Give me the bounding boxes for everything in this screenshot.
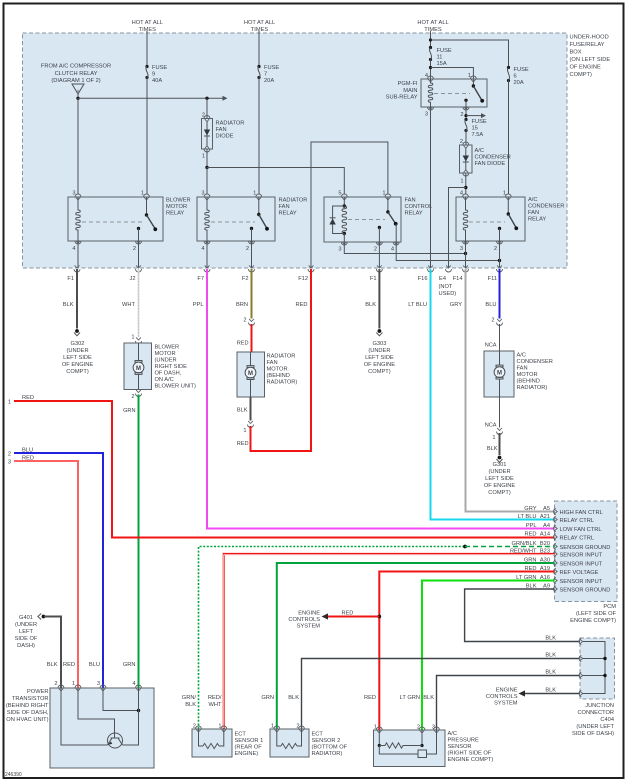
svg-text:1: 1 [131, 335, 134, 341]
svg-text:RED: RED [342, 611, 354, 617]
svg-text:SIDE OF: SIDE OF [15, 636, 38, 642]
svg-text:MOTOR: MOTOR [166, 204, 187, 210]
svg-text:FAN: FAN [267, 360, 278, 366]
svg-text:3: 3 [8, 460, 11, 466]
svg-text:ENGINE COMPT): ENGINE COMPT) [570, 618, 616, 624]
wire fuse 7 to radiator fan relay pin 1 [258, 78, 260, 195]
svg-text:BLK: BLK [47, 662, 58, 668]
label: engine controls system (upper) [288, 611, 320, 630]
pin labels PGM-FI main sub-relay [425, 73, 471, 118]
svg-text:LEFT: LEFT [19, 629, 33, 635]
connector A/C condenser fan motor pin 1 [497, 428, 503, 435]
svg-text:RIGHT SIDE: RIGHT SIDE [155, 364, 188, 370]
svg-text:2: 2 [491, 318, 494, 324]
wire BLK A/C pressure sensor to junction connector row 3 [437, 676, 581, 731]
svg-text:5: 5 [338, 191, 341, 197]
svg-text:(BEHIND RIGHT: (BEHIND RIGHT [6, 703, 49, 709]
svg-text:BLOWER: BLOWER [155, 345, 180, 351]
wire fuse 15 to A/C condenser fan diode [465, 131, 467, 146]
svg-text:HOT AT ALL: HOT AT ALL [132, 20, 163, 26]
fuse 7 20A [257, 65, 279, 84]
wire fan control relay pin 3 net to F14 junction [344, 242, 465, 254]
wire hot feed 3 [430, 31, 432, 48]
svg-text:RED: RED [295, 302, 307, 308]
svg-text:A/C: A/C [448, 731, 457, 737]
wire color labels row [63, 302, 497, 308]
fuse 6 20A [507, 66, 529, 86]
svg-text:CONTROLS: CONTROLS [288, 617, 320, 623]
svg-text:(UNDER: (UNDER [66, 348, 88, 354]
svg-text:SENSOR 1: SENSOR 1 [235, 738, 264, 744]
svg-text:NCA: NCA [485, 423, 497, 429]
label: HOT AT ALL TIMES (middle) [244, 20, 275, 33]
svg-text:11: 11 [437, 55, 443, 61]
svg-text:GRN: GRN [123, 662, 136, 668]
svg-text:PPL: PPL [526, 523, 537, 529]
label: ECT sensor 2 [312, 732, 348, 758]
label: ECT sensor 1 [235, 732, 264, 758]
inline connector BRN/RED [249, 319, 255, 326]
wire BLK radiator fan motor down [250, 397, 252, 421]
svg-text:LT BLU: LT BLU [408, 302, 427, 308]
pin labels A/C condenser fan relay [460, 191, 506, 253]
wire BRN F2 down [251, 269, 253, 319]
svg-text:SENSOR 2: SENSOR 2 [312, 738, 341, 744]
svg-text:RED/: RED/ [208, 695, 222, 701]
svg-text:WHT: WHT [209, 702, 222, 708]
svg-text:TIMES: TIMES [251, 27, 269, 33]
svg-text:RADIATOR): RADIATOR) [312, 751, 343, 757]
svg-text:CONNECTOR: CONNECTOR [577, 710, 614, 716]
svg-text:SENSOR INPUT: SENSOR INPUT [560, 561, 603, 567]
svg-text:20A: 20A [264, 78, 274, 84]
wire BLK ECT sensor 2 to junction connector row 2 [302, 659, 581, 730]
svg-text:FAN: FAN [517, 366, 528, 372]
wire PPL F7 to PCM A4 [207, 269, 555, 529]
svg-text:20A: 20A [514, 80, 524, 86]
wire GRN ECT sensor 2 to PCM A30 [277, 563, 555, 729]
svg-text:1: 1 [8, 400, 11, 406]
wire NCA to A/C condenser fan motor [499, 324, 501, 351]
pin labels power transistor [54, 681, 135, 687]
wire LT GRN A/C pressure sensor to PCM A16 [422, 581, 555, 731]
svg-text:LEFT SIDE: LEFT SIDE [365, 355, 394, 361]
svg-text:2: 2 [54, 681, 57, 687]
connector pin labels F1 J2 F7 F2 F12 [67, 276, 497, 282]
wire GRN/BLK splice to PCM [465, 546, 555, 548]
label: radiator fan diode [216, 121, 245, 140]
label: A/C pressure sensor [448, 731, 494, 763]
svg-text:UNDER-HOOD: UNDER-HOOD [570, 35, 609, 41]
svg-text:RADIATOR: RADIATOR [216, 121, 245, 127]
node diode top junction [205, 97, 208, 100]
svg-text:GRN/: GRN/ [182, 695, 197, 701]
svg-text:DIODE: DIODE [216, 134, 234, 140]
svg-text:9: 9 [152, 72, 155, 78]
svg-text:BLK: BLK [545, 653, 556, 659]
wire fan control relay pin 2 to F1 [378, 242, 380, 268]
wire labels ECT sensor 1 [182, 695, 222, 708]
svg-text:RED: RED [364, 695, 376, 701]
wire LT BLU F16 to PCM A21 [431, 269, 555, 520]
svg-text:ENGINE): ENGINE) [235, 751, 259, 757]
label: power transistor [6, 689, 49, 723]
svg-text:FUSE: FUSE [472, 119, 487, 125]
wire fan control relay pin 4 net to F11 junction [396, 242, 499, 261]
wire BLK junction row 4 to engine controls system [519, 688, 581, 697]
svg-text:FAN DIODE: FAN DIODE [475, 161, 506, 167]
svg-text:M: M [136, 366, 141, 372]
svg-text:1: 1 [243, 428, 246, 434]
node E4 branch [464, 186, 467, 189]
svg-text:G301: G301 [493, 462, 507, 468]
svg-text:SENSOR INPUT: SENSOR INPUT [560, 552, 603, 558]
svg-text:FUSE: FUSE [152, 65, 167, 71]
svg-text:WHT: WHT [122, 302, 135, 308]
svg-text:PPL: PPL [193, 302, 204, 308]
label: PGM-FI main sub-relay [386, 81, 418, 101]
svg-text:PCM: PCM [603, 604, 616, 610]
svg-text:A/C: A/C [528, 197, 537, 203]
wire junction to radiator fan relay pin 3 [206, 168, 208, 195]
wire WHT J2 to blower motor [138, 269, 140, 337]
svg-text:OF DASH,: OF DASH, [155, 371, 182, 377]
svg-text:FAN: FAN [216, 127, 227, 133]
svg-text:SYSTEM: SYSTEM [494, 701, 518, 707]
svg-text:MOTOR: MOTOR [267, 367, 288, 373]
fan control relay [324, 194, 401, 245]
svg-text:ENGINE COMPT): ENGINE COMPT) [448, 757, 494, 763]
wire RED connector to radiator fan motor [251, 324, 253, 352]
svg-text:BLK: BLK [185, 702, 196, 708]
wire BLU F11 down [499, 269, 501, 319]
svg-text:HOT AT ALL: HOT AT ALL [417, 20, 448, 26]
svg-text:2: 2 [133, 246, 136, 252]
node diode output junction [205, 166, 208, 169]
svg-text:LT BLU: LT BLU [518, 514, 537, 520]
wire radiator relay pin 4 to F7 [206, 241, 208, 268]
svg-text:A/C: A/C [517, 353, 526, 359]
svg-text:(UNDER LEFT: (UNDER LEFT [576, 724, 614, 730]
svg-text:(BEHIND: (BEHIND [267, 373, 290, 379]
wire 2 BLU from left edge to power transistor pin 3 [8, 448, 103, 688]
svg-text:(LEFT SIDE OF: (LEFT SIDE OF [576, 611, 617, 617]
svg-text:F12: F12 [298, 276, 308, 282]
svg-text:ECT: ECT [235, 732, 247, 738]
radiator fan diode [202, 116, 213, 153]
svg-text:RADIATOR: RADIATOR [279, 198, 308, 204]
svg-text:SIDE OF DASH): SIDE OF DASH) [572, 731, 614, 737]
triangle A source symbol [72, 84, 84, 98]
svg-text:1: 1 [492, 435, 495, 441]
label: radiator fan motor [267, 354, 298, 386]
svg-text:ENGINE: ENGINE [298, 611, 320, 617]
svg-text:G401: G401 [19, 615, 33, 621]
label: blower motor [155, 345, 196, 390]
svg-text:SENSOR: SENSOR [448, 744, 472, 750]
svg-text:HOT AT ALL: HOT AT ALL [244, 20, 275, 26]
wire fuse 11 to junction [430, 60, 432, 80]
svg-text:ON A/C: ON A/C [155, 377, 174, 383]
svg-text:3: 3 [72, 191, 75, 197]
svg-text:SENSOR GROUND: SENSOR GROUND [560, 545, 611, 551]
wire arrow branch right [466, 113, 486, 118]
svg-text:RELAY: RELAY [166, 211, 184, 217]
svg-text:PRESSURE: PRESSURE [448, 738, 479, 744]
wire node A to blower relay pin 3 [77, 98, 79, 194]
wire node A horizontal with arrow [78, 96, 228, 101]
svg-text:246390: 246390 [5, 772, 22, 778]
svg-text:G303: G303 [372, 341, 386, 347]
wire 1 RED from left edge to PCM A14 [8, 395, 555, 538]
PCM pin labels [540, 506, 550, 590]
svg-text:HIGH FAN CTRL: HIGH FAN CTRL [560, 510, 603, 516]
svg-text:C404: C404 [600, 717, 614, 723]
svg-text:RELAY CTRL: RELAY CTRL [560, 535, 595, 541]
svg-text:3: 3 [201, 191, 204, 197]
wire condenser relay pin 2 to F11 [499, 241, 501, 268]
svg-text:BLK: BLK [63, 302, 74, 308]
ground G302 [62, 329, 93, 375]
wire BLK PCM A9 to junction connector [465, 589, 580, 642]
svg-text:BLK: BLK [487, 446, 498, 452]
svg-text:2: 2 [460, 112, 463, 118]
label: radiator fan relay [279, 198, 308, 217]
svg-text:GRN: GRN [261, 695, 274, 701]
node engine controls branch [377, 615, 381, 619]
svg-text:4: 4 [72, 246, 75, 252]
radiator fan relay [197, 194, 275, 244]
svg-text:ON HVAC UNIT): ON HVAC UNIT) [6, 717, 48, 723]
svg-text:BLU: BLU [89, 662, 100, 668]
wire BLK G401 to power transistor pin 2 [44, 617, 61, 688]
wire condenser relay pin 3 to F14 [465, 241, 467, 268]
svg-text:TRANSISTOR: TRANSISTOR [12, 696, 49, 702]
svg-text:F2: F2 [242, 276, 249, 282]
svg-text:15A: 15A [437, 61, 447, 67]
blower motor [124, 343, 152, 390]
wire labels ECT sensor 2 [261, 695, 299, 701]
node arrow branch [464, 114, 467, 117]
wire branch to fuse 6 [431, 40, 509, 68]
ECT sensor 2 [270, 726, 309, 757]
svg-text:LOW FAN CTRL: LOW FAN CTRL [560, 527, 602, 533]
blower motor relay [68, 194, 163, 244]
svg-text:SUB-RELAY: SUB-RELAY [386, 95, 418, 101]
svg-text:FAN: FAN [279, 204, 290, 210]
svg-text:POWER: POWER [27, 689, 49, 695]
svg-text:ECT: ECT [312, 732, 324, 738]
svg-text:3: 3 [460, 246, 463, 252]
svg-text:OF ENGINE: OF ENGINE [484, 483, 515, 489]
svg-text:RELAY: RELAY [405, 211, 423, 217]
wire RED A/C pressure sensor to PCM A19 [379, 572, 554, 731]
pin labels A/C pressure sensor [374, 725, 435, 731]
radiator fan motor [237, 352, 265, 397]
svg-text:FUSE: FUSE [437, 48, 452, 54]
svg-text:RELAY CTRL: RELAY CTRL [560, 518, 595, 524]
node pin4 junction on F11 wire [498, 259, 501, 262]
wire fuse 9 to blower relay pin 1 [146, 78, 148, 195]
svg-text:1: 1 [503, 191, 506, 197]
wire fuse 6 to A/C condenser fan relay pin 1 [508, 81, 510, 195]
svg-text:LT GRN: LT GRN [400, 695, 420, 701]
junction connector C404 [579, 638, 614, 699]
svg-text:(REAR OF: (REAR OF [235, 745, 263, 751]
svg-text:3: 3 [425, 112, 428, 118]
wire RED/WHT ECT sensor 1 to PCM B23 [224, 554, 555, 729]
svg-text:A4: A4 [543, 523, 550, 529]
pin labels fan control relay [338, 191, 394, 253]
svg-text:7.5A: 7.5A [472, 132, 484, 138]
label: A/C condenser fan motor [517, 353, 553, 392]
svg-text:40A: 40A [152, 78, 162, 84]
svg-text:GRN: GRN [123, 408, 135, 414]
PCM row entry arcs [554, 508, 558, 592]
pin labels ECT sensor 2 [271, 724, 300, 730]
svg-text:SYSTEM: SYSTEM [297, 624, 321, 630]
wire radiator relay pin 2 to F2 [251, 241, 253, 268]
wire labels A/C pressure sensor [364, 695, 434, 701]
connector blower motor pin 2 [136, 390, 142, 397]
svg-text:BRN: BRN [236, 302, 248, 308]
svg-text:M: M [248, 371, 253, 377]
svg-text:2: 2 [494, 246, 497, 252]
svg-text:PGM-FI: PGM-FI [398, 81, 418, 87]
svg-text:A/C: A/C [475, 148, 484, 154]
svg-text:COMPT): COMPT) [570, 72, 593, 78]
svg-text:1: 1 [253, 191, 256, 197]
wire RED F12 riser [310, 269, 312, 452]
wire branch to E4 [449, 188, 466, 269]
svg-text:FUSE: FUSE [264, 65, 279, 71]
wire branch to PGM-FI pin 1 [431, 68, 474, 80]
label: E4 not used [439, 284, 457, 297]
svg-text:J2: J2 [129, 276, 135, 282]
wire blower relay pin 4 to F1 [77, 241, 79, 268]
svg-text:FUSE/RELAY: FUSE/RELAY [570, 42, 605, 48]
svg-text:BLK: BLK [288, 695, 299, 701]
wire junction to radiator fan diode pin 2 [206, 98, 208, 118]
svg-text:BLK: BLK [545, 636, 556, 642]
svg-text:RADIATOR: RADIATOR [267, 354, 296, 360]
wire PGM-FI pin 2 down [465, 107, 467, 119]
svg-text:RED: RED [63, 662, 75, 668]
wire RED branch to engine controls system [322, 611, 380, 620]
svg-text:ENGINE: ENGINE [496, 688, 518, 694]
svg-text:BLK: BLK [237, 408, 248, 414]
svg-text:2: 2 [246, 246, 249, 252]
svg-text:OF ENGINE: OF ENGINE [364, 362, 395, 368]
svg-text:COMPT): COMPT) [368, 369, 391, 375]
svg-text:G302: G302 [71, 341, 85, 347]
inline connector BLU/NCA [497, 319, 503, 326]
wire junction to fan control relay pin 5 [207, 168, 344, 195]
under-hood fuse/relay box (dashed) [23, 33, 568, 268]
svg-text:CONTROLS: CONTROLS [486, 694, 518, 700]
wire GRN/BLK ECT sensor 1 to PCM B20 [199, 547, 466, 730]
svg-text:1: 1 [72, 681, 75, 687]
wire labels above power transistor [47, 662, 136, 668]
svg-text:RADIATOR): RADIATOR) [267, 380, 298, 386]
wire hot feed 1 to fuse 9 [146, 31, 148, 67]
label: engine controls system (lower) [486, 688, 518, 707]
svg-text:4: 4 [391, 247, 394, 253]
svg-text:(UNDER: (UNDER [488, 469, 510, 475]
svg-text:2: 2 [131, 394, 134, 400]
svg-text:F1: F1 [67, 276, 74, 282]
svg-text:(UNDER: (UNDER [368, 348, 390, 354]
svg-text:F1: F1 [370, 276, 377, 282]
wire BLK F1 right to G303 [378, 269, 380, 329]
svg-text:A5: A5 [543, 506, 550, 512]
wire diode to condenser relay pin 4 [465, 173, 467, 194]
svg-text:TIMES: TIMES [424, 27, 442, 33]
wire RED motor low side to F12 riser [251, 426, 312, 451]
svg-text:BLU: BLU [485, 302, 496, 308]
wire blower relay pin 2 to J2 [138, 241, 140, 268]
svg-text:(RIGHT SIDE OF: (RIGHT SIDE OF [448, 751, 492, 757]
svg-text:USED): USED) [439, 291, 457, 297]
svg-text:DASH): DASH) [17, 643, 35, 649]
svg-text:F16: F16 [418, 276, 428, 282]
svg-text:(BOTTOM OF: (BOTTOM OF [312, 745, 348, 751]
svg-text:7: 7 [264, 72, 267, 78]
svg-text:(UNDER: (UNDER [15, 622, 37, 628]
svg-text:OF ENGINE: OF ENGINE [570, 65, 601, 71]
label: under-hood fuse/relay box [570, 35, 611, 79]
ground G303 [364, 329, 395, 375]
svg-text:FAN: FAN [405, 198, 416, 204]
svg-text:GRY: GRY [450, 302, 462, 308]
svg-text:BLOWER UNIT): BLOWER UNIT) [155, 384, 196, 390]
svg-text:RED: RED [237, 341, 249, 347]
svg-text:CONDENSER: CONDENSER [528, 204, 564, 210]
label: A/C condenser fan relay [528, 197, 564, 223]
pin labels blower relay [72, 191, 144, 253]
svg-text:JUNCTION: JUNCTION [585, 703, 614, 709]
svg-text:LEFT SIDE: LEFT SIDE [485, 476, 514, 482]
svg-text:(UNDER: (UNDER [155, 358, 177, 364]
wire GRY F14 to PCM A5 [466, 269, 555, 512]
svg-text:1: 1 [202, 154, 205, 160]
svg-text:2: 2 [8, 452, 11, 458]
svg-text:MOTOR: MOTOR [517, 372, 538, 378]
pin labels ECT sensor 1 [193, 724, 222, 730]
label: HOT AT ALL TIMES (right) [417, 20, 448, 33]
svg-text:MOTOR: MOTOR [155, 351, 176, 357]
A/C condenser fan relay [456, 194, 525, 244]
svg-text:CONTROL: CONTROL [405, 204, 433, 210]
PCM connector box [555, 501, 618, 602]
svg-text:COMPT): COMPT) [66, 369, 89, 375]
svg-text:NCA: NCA [485, 343, 497, 349]
svg-text:BOX: BOX [570, 50, 582, 56]
svg-text:1: 1 [382, 191, 385, 197]
wire 3 RED from left edge to power transistor pin 1 [8, 456, 78, 688]
svg-text:OF ENGINE: OF ENGINE [62, 362, 93, 368]
svg-text:1: 1 [460, 179, 463, 185]
svg-text:15: 15 [472, 126, 478, 132]
svg-text:6: 6 [514, 74, 517, 80]
wire BLK to G301 [499, 433, 501, 455]
svg-text:4: 4 [132, 681, 135, 687]
fuse 15 7.5A [464, 118, 486, 138]
svg-text:BLK: BLK [423, 695, 434, 701]
svg-text:(NOT: (NOT [439, 284, 453, 290]
node branch to PGM-FI pin 1 [429, 66, 432, 69]
svg-text:CLUTCH RELAY: CLUTCH RELAY [55, 71, 98, 77]
